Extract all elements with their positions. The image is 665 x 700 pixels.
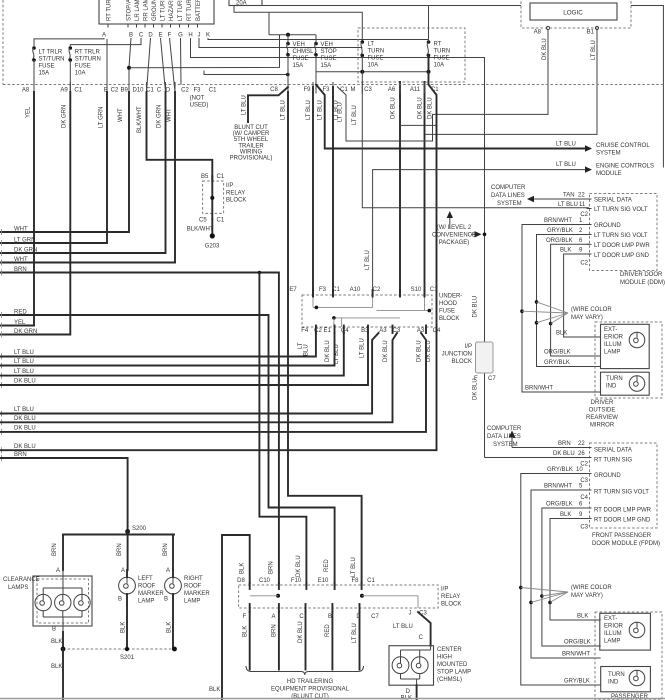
svg-text:A6: A6 bbox=[388, 87, 396, 93]
svg-text:MODULE: MODULE bbox=[596, 171, 622, 177]
wire firewall crossing tick bbox=[174, 82, 176, 94]
wire LT BLU blunt cut bbox=[248, 87, 288, 122]
wire BLK clearance to S201 bbox=[62, 632, 64, 649]
svg-text:C1: C1 bbox=[430, 287, 438, 293]
svg-text:C2: C2 bbox=[181, 88, 189, 94]
svg-text:DRIVER: DRIVER bbox=[591, 400, 614, 406]
svg-text:YEL: YEL bbox=[14, 320, 26, 326]
svg-text:A: A bbox=[56, 568, 60, 574]
svg-text:LT TRLR: LT TRLR bbox=[39, 50, 63, 56]
svg-text:I/P: I/P bbox=[226, 183, 233, 189]
svg-text:BLK: BLK bbox=[240, 563, 246, 574]
wire DK BLU to fuse block A3 bbox=[0, 333, 368, 385]
svg-text:LT BLU: LT BLU bbox=[306, 100, 312, 120]
svg-text:REARVIEW: REARVIEW bbox=[586, 415, 618, 421]
svg-text:DATA LINES: DATA LINES bbox=[487, 434, 521, 440]
svg-text:LT GRN: LT GRN bbox=[99, 107, 105, 128]
ground G203 bbox=[210, 233, 215, 238]
wire DK BLU to fuse block C4 right bbox=[0, 333, 426, 432]
svg-text:EXT-: EXT- bbox=[604, 327, 617, 333]
wire RT fuse top to logic rail bbox=[428, 6, 430, 43]
svg-text:RT TURN: RT TURN bbox=[187, 0, 193, 21]
right roof marker lamp bbox=[165, 577, 182, 594]
svg-text:G: G bbox=[178, 33, 183, 39]
wire BRN blunt bbox=[278, 612, 280, 670]
svg-text:C3: C3 bbox=[580, 525, 588, 531]
svg-text:10A: 10A bbox=[75, 71, 86, 77]
svg-text:ST/TURN: ST/TURN bbox=[39, 57, 65, 63]
svg-text:WIRING: WIRING bbox=[240, 149, 263, 155]
svg-text:PACKAGE): PACKAGE) bbox=[439, 240, 470, 246]
svg-text:SERIAL DATA: SERIAL DATA bbox=[594, 448, 632, 454]
node VEH CHMSL top bbox=[286, 33, 290, 37]
wire LT BLU from LOGIC B1 bbox=[425, 30, 598, 135]
svg-text:FUSE: FUSE bbox=[434, 56, 450, 62]
svg-text:A9: A9 bbox=[60, 88, 68, 94]
svg-text:BRN/WHT: BRN/WHT bbox=[562, 652, 590, 658]
wire BLK/WHT to ground bbox=[211, 219, 213, 236]
svg-text:UNDER-: UNDER- bbox=[439, 294, 462, 300]
svg-text:E1: E1 bbox=[324, 328, 332, 334]
wire LT BLU to fuse block C4 bbox=[0, 333, 344, 376]
svg-text:STOP LAMP: STOP LAMP bbox=[437, 670, 471, 676]
svg-text:F3: F3 bbox=[319, 287, 327, 293]
svg-text:LEFT: LEFT bbox=[138, 576, 153, 582]
wire BLK blunt bbox=[249, 612, 251, 670]
svg-text:15A: 15A bbox=[39, 71, 50, 77]
wire pin G down bbox=[180, 38, 183, 85]
svg-text:F3: F3 bbox=[193, 88, 201, 94]
lamp passenger exterior illum bbox=[629, 622, 645, 638]
svg-text:C8: C8 bbox=[270, 87, 278, 93]
svg-text:J: J bbox=[409, 611, 412, 617]
wire RED blunt bbox=[331, 612, 333, 670]
svg-text:B: B bbox=[164, 597, 168, 603]
wire WHT 2 bbox=[0, 92, 175, 263]
page edge tick bbox=[1, 260, 3, 266]
svg-text:CENTER: CENTER bbox=[437, 647, 462, 653]
svg-text:LT TURN: LT TURN bbox=[161, 0, 167, 21]
wire fuse load rail bbox=[316, 71, 429, 73]
svg-text:DK GRN: DK GRN bbox=[14, 329, 37, 335]
svg-text:BRN: BRN bbox=[52, 543, 58, 556]
FPDM pin tick bbox=[587, 518, 592, 520]
FPDM pin tick bbox=[587, 457, 592, 459]
node B junction bbox=[127, 66, 131, 70]
svg-text:B: B bbox=[52, 627, 56, 633]
wire stub rail F3 bbox=[204, 71, 288, 75]
svg-text:(W/ CAMPER: (W/ CAMPER bbox=[233, 131, 270, 137]
svg-text:D: D bbox=[148, 33, 153, 39]
svg-text:BRN: BRN bbox=[558, 441, 571, 447]
svg-text:GRY/BLK: GRY/BLK bbox=[564, 679, 590, 685]
svg-text:COMPUTER: COMPUTER bbox=[491, 185, 526, 191]
svg-text:ORG/BLK: ORG/BLK bbox=[544, 350, 571, 356]
wire rail to VEH fuses tops bbox=[269, 34, 316, 36]
wire BLK bridge bbox=[222, 535, 250, 700]
fuse RT TRLR ST/TURN 10A bbox=[69, 46, 73, 50]
svg-text:GROUND: GROUND bbox=[594, 223, 621, 229]
svg-text:A3: A3 bbox=[379, 328, 387, 334]
svg-text:BRN: BRN bbox=[269, 561, 275, 574]
svg-text:BLOCK: BLOCK bbox=[441, 602, 461, 608]
svg-text:MOUNTED: MOUNTED bbox=[437, 662, 468, 668]
svg-text:ORG/BLK: ORG/BLK bbox=[546, 502, 573, 508]
svg-text:BLK: BLK bbox=[560, 512, 571, 518]
wire firewall crossing tick bbox=[332, 82, 334, 94]
svg-text:LT BLU: LT BLU bbox=[591, 40, 597, 60]
svg-text:TRAILER: TRAILER bbox=[238, 143, 264, 149]
svg-text:ROOF: ROOF bbox=[138, 584, 156, 590]
svg-text:C10: C10 bbox=[259, 578, 271, 584]
svg-text:ERIOR: ERIOR bbox=[604, 624, 624, 630]
wire BLK left marker bbox=[126, 594, 128, 649]
page edge tick bbox=[1, 419, 3, 425]
svg-text:LT BLU: LT BLU bbox=[351, 557, 357, 577]
firewall dashed boundary bbox=[3, 84, 665, 86]
wire S200 bus bbox=[63, 534, 174, 536]
wire BRNWHT pin1 bbox=[522, 225, 601, 393]
relay pin ticks bottom bbox=[249, 604, 251, 612]
pin A8 bbox=[546, 26, 549, 29]
svg-text:SYSTEM: SYSTEM bbox=[497, 201, 522, 207]
svg-text:H: H bbox=[188, 33, 192, 39]
svg-text:LAMP: LAMP bbox=[184, 599, 200, 605]
svg-text:A8: A8 bbox=[534, 30, 542, 36]
wire LT BLU blunt bbox=[359, 612, 361, 670]
svg-text:B: B bbox=[129, 33, 133, 39]
svg-text:E10: E10 bbox=[318, 578, 329, 584]
svg-text:RT: RT bbox=[434, 42, 442, 48]
svg-text:F: F bbox=[168, 33, 172, 39]
wire firewall crossing tick bbox=[399, 82, 401, 94]
wire firewall crossing tick bbox=[146, 82, 148, 94]
svg-text:LT TURN SIG VOLT: LT TURN SIG VOLT bbox=[594, 233, 648, 239]
svg-text:ORG/BLK: ORG/BLK bbox=[546, 238, 573, 244]
svg-text:BLK: BLK bbox=[121, 622, 127, 633]
wire BRN drop right bbox=[172, 535, 174, 571]
svg-text:RT TURN SIG: RT TURN SIG bbox=[594, 458, 632, 464]
svg-text:HIGH: HIGH bbox=[437, 655, 452, 661]
page edge tick bbox=[1, 455, 3, 461]
svg-text:DK GRN: DK GRN bbox=[14, 247, 37, 253]
svg-text:RT TRLR: RT TRLR bbox=[75, 50, 101, 56]
wire BLK below CHMSL bbox=[416, 685, 418, 700]
svg-text:F: F bbox=[243, 614, 247, 620]
svg-text:LT TURN: LT TURN bbox=[178, 0, 184, 21]
svg-text:DK BLU: DK BLU bbox=[14, 444, 36, 450]
wire M to DDM 11 bbox=[362, 55, 589, 207]
svg-text:LT BLU: LT BLU bbox=[14, 407, 34, 413]
svg-text:F3: F3 bbox=[322, 87, 330, 93]
svg-text:RELAY: RELAY bbox=[226, 191, 245, 197]
svg-text:STOP/A): STOP/A) bbox=[127, 0, 133, 21]
fuse RT TURN 10A bbox=[427, 40, 431, 44]
FPDM dashed box bbox=[590, 443, 658, 528]
wire VEH STOP bottom bbox=[315, 55, 317, 85]
wire rail from B up to CHMSL top rail bbox=[129, 35, 280, 68]
fuse VEH STOP 15A bbox=[314, 42, 318, 46]
svg-text:A8: A8 bbox=[22, 88, 30, 94]
svg-text:LT BLU: LT BLU bbox=[334, 344, 340, 364]
logic module U1 dashed enclosure bbox=[521, 0, 631, 28]
svg-text:DK BLU: DK BLU bbox=[417, 340, 423, 362]
svg-text:FUSE: FUSE bbox=[368, 56, 384, 62]
dashed page edge top left bbox=[2, 0, 4, 85]
svg-text:BLK/WHT: BLK/WHT bbox=[187, 227, 214, 233]
svg-text:DK BLU: DK BLU bbox=[473, 296, 479, 318]
wire LT BLU from VEH CHMSL to relay F8 bbox=[288, 92, 362, 583]
wire RED bbox=[0, 315, 335, 583]
svg-text:22: 22 bbox=[578, 441, 585, 447]
wire rail to LOGIC bbox=[262, 5, 521, 7]
svg-text:TURN: TURN bbox=[606, 376, 623, 382]
wire ORGBLK pin6 bbox=[551, 244, 601, 356]
wire DK BLU to fuse block A3 right bbox=[0, 333, 397, 422]
svg-text:5TH WHEEL: 5TH WHEEL bbox=[234, 137, 269, 143]
svg-text:C2: C2 bbox=[111, 88, 119, 94]
svg-text:LT GRN: LT GRN bbox=[14, 237, 35, 243]
svg-text:20A: 20A bbox=[236, 1, 247, 7]
wire LT BLU to fuse block E1 bbox=[0, 333, 335, 366]
page edge tick bbox=[1, 270, 3, 276]
svg-text:C4: C4 bbox=[341, 328, 349, 334]
wire RT TRLR fuse bottom lead bbox=[69, 60, 71, 92]
svg-text:DRIVER DOOR: DRIVER DOOR bbox=[620, 272, 663, 278]
svg-text:MAY VARY): MAY VARY) bbox=[571, 593, 603, 599]
svg-text:MAY VARY): MAY VARY) bbox=[571, 315, 603, 321]
svg-text:GROUND: GROUND bbox=[594, 473, 621, 479]
svg-text:C1: C1 bbox=[340, 87, 348, 93]
wire through relay bbox=[211, 176, 213, 219]
svg-text:26: 26 bbox=[578, 451, 585, 457]
page edge tick bbox=[1, 447, 3, 453]
svg-text:C1: C1 bbox=[74, 88, 82, 94]
page edge tick bbox=[1, 382, 3, 388]
svg-text:BLOCK: BLOCK bbox=[452, 359, 472, 365]
lamp CHMSL 2 bbox=[411, 657, 428, 674]
node wire color dot bbox=[520, 309, 524, 313]
wire DK BLU blunt bbox=[305, 612, 307, 670]
I/P junction block bbox=[476, 342, 494, 373]
svg-text:EXT-: EXT- bbox=[604, 616, 617, 622]
passenger turn ind box bbox=[601, 667, 651, 692]
wire firewall crossing tick bbox=[165, 82, 167, 94]
page edge tick bbox=[1, 363, 3, 369]
svg-text:LT BLU: LT BLU bbox=[338, 102, 344, 122]
wire rail branch bbox=[268, 12, 270, 35]
node wire color dot bbox=[549, 322, 553, 326]
svg-text:F9: F9 bbox=[303, 87, 311, 93]
relay internals bbox=[276, 594, 280, 598]
svg-text:TURN: TURN bbox=[368, 49, 385, 55]
svg-text:MIRROR: MIRROR bbox=[590, 423, 615, 429]
wire TAN serial data arrow bbox=[534, 198, 589, 200]
svg-text:LT BLU: LT BLU bbox=[14, 350, 34, 356]
svg-text:A3: A3 bbox=[417, 328, 425, 334]
svg-text:TURN: TURN bbox=[608, 672, 625, 678]
page edge tick bbox=[1, 240, 3, 246]
wire BLK pin9 bbox=[564, 254, 601, 337]
lamp CHMSL 1 bbox=[392, 657, 409, 674]
lamp driver turn ind bbox=[629, 376, 645, 392]
svg-text:M: M bbox=[351, 87, 356, 93]
wire pin B down with junction bbox=[129, 38, 131, 67]
svg-text:C7: C7 bbox=[371, 614, 379, 620]
node BRN branch bbox=[258, 271, 262, 275]
DDM pin tick bbox=[587, 198, 592, 200]
svg-text:DK GRN: DK GRN bbox=[157, 105, 163, 128]
svg-text:MODULE (DDM): MODULE (DDM) bbox=[620, 280, 665, 286]
svg-text:DK BLU: DK BLU bbox=[325, 340, 331, 362]
svg-text:HOOD: HOOD bbox=[439, 301, 458, 307]
svg-text:RT TURN SIG VOLT: RT TURN SIG VOLT bbox=[594, 490, 649, 496]
wire BRN drop left bbox=[62, 535, 64, 571]
svg-text:RED: RED bbox=[325, 624, 331, 637]
svg-text:22: 22 bbox=[578, 193, 585, 199]
wire pin D down bbox=[147, 38, 151, 92]
svg-text:LT BLU: LT BLU bbox=[365, 250, 371, 270]
svg-text:D10: D10 bbox=[132, 88, 144, 94]
svg-text:DATA LINES: DATA LINES bbox=[491, 193, 525, 199]
arrow to wire bbox=[471, 233, 477, 235]
svg-text:BLK: BLK bbox=[577, 614, 588, 620]
wire LT BLU to fuse block F4 bbox=[0, 333, 316, 357]
wire BRN drop mid bbox=[127, 535, 129, 571]
svg-text:DK BLU: DK BLU bbox=[426, 340, 432, 362]
svg-text:LT BLU: LT BLU bbox=[242, 95, 248, 115]
svg-text:C: C bbox=[419, 635, 424, 641]
svg-text:BLOCK: BLOCK bbox=[439, 316, 459, 322]
svg-text:EQUIPMENT PROVISIONAL: EQUIPMENT PROVISIONAL bbox=[271, 687, 350, 693]
wire firewall crossing tick bbox=[287, 82, 289, 94]
svg-text:ILLUM: ILLUM bbox=[604, 342, 622, 348]
svg-text:10A: 10A bbox=[368, 63, 379, 69]
svg-text:BRN/WHT: BRN/WHT bbox=[525, 386, 553, 392]
passenger exterior illum lamp box bbox=[600, 613, 651, 650]
page edge tick bbox=[1, 229, 3, 235]
svg-text:I/P: I/P bbox=[441, 587, 448, 593]
svg-text:C3: C3 bbox=[393, 328, 401, 334]
svg-text:COMPUTER: COMPUTER bbox=[487, 426, 522, 432]
svg-text:F4: F4 bbox=[301, 328, 309, 334]
svg-text:ENGINE CONTROLS: ENGINE CONTROLS bbox=[596, 164, 654, 170]
clearance lamps box bbox=[33, 576, 92, 626]
wire GRYBLK 10 bbox=[521, 474, 601, 686]
svg-text:LT BLU: LT BLU bbox=[14, 359, 34, 365]
svg-text:RED: RED bbox=[14, 309, 27, 315]
splice S200 bbox=[125, 529, 130, 534]
svg-text:LAMPS: LAMPS bbox=[8, 585, 28, 591]
svg-text:TURN: TURN bbox=[434, 49, 451, 55]
exterior illum lamp box bbox=[601, 324, 650, 368]
trailer connector box (cut off at top) bbox=[99, 0, 214, 24]
svg-text:C: C bbox=[299, 614, 304, 620]
svg-text:BLK/WHT: BLK/WHT bbox=[137, 106, 143, 133]
wire VEH STOP to cruise bbox=[316, 85, 589, 149]
page edge tick bbox=[1, 354, 3, 360]
svg-text:10A: 10A bbox=[434, 63, 445, 69]
DDM pin tick bbox=[587, 243, 592, 245]
svg-text:WHT: WHT bbox=[167, 108, 173, 122]
svg-text:DK BLU: DK BLU bbox=[383, 340, 389, 362]
wire firewall crossing tick bbox=[69, 82, 71, 94]
bracket HD trailering bbox=[246, 666, 364, 675]
lamp clearance 2 bbox=[55, 594, 71, 610]
svg-text:DK BLU: DK BLU bbox=[14, 379, 36, 385]
wire A6 feed bbox=[399, 82, 401, 296]
svg-text:BLK: BLK bbox=[560, 248, 571, 254]
svg-text:S10: S10 bbox=[411, 287, 422, 293]
svg-text:BRN: BRN bbox=[14, 267, 27, 273]
svg-text:VEH: VEH bbox=[321, 42, 333, 48]
svg-text:A: A bbox=[102, 33, 106, 39]
svg-text:GRY/BLK: GRY/BLK bbox=[544, 360, 570, 366]
wire E7 feed bbox=[312, 87, 314, 296]
svg-text:(WIRE COLOR: (WIRE COLOR bbox=[571, 307, 612, 313]
svg-text:BRN: BRN bbox=[117, 543, 123, 556]
wire DK BLU long to RT TURN fuse bbox=[0, 55, 437, 450]
svg-text:GRY/BLK: GRY/BLK bbox=[547, 228, 573, 234]
svg-text:C: C bbox=[157, 88, 162, 94]
FPDM pin tick bbox=[587, 489, 592, 491]
passenger mirror dashed box bbox=[595, 612, 662, 700]
svg-text:BLUNT CUT: BLUNT CUT bbox=[234, 125, 268, 131]
svg-text:C2: C2 bbox=[580, 261, 588, 267]
pin tick crossing fuse block bottom bbox=[315, 326, 317, 334]
wire ORGBLK 6 bbox=[542, 508, 601, 646]
svg-text:ST/TURN: ST/TURN bbox=[75, 57, 101, 63]
svg-text:(WIRE COLOR: (WIRE COLOR bbox=[571, 585, 612, 591]
wire LT GRN bbox=[0, 92, 107, 243]
FPDM pin tick bbox=[587, 507, 592, 509]
svg-text:DK BLU: DK BLU bbox=[14, 416, 36, 422]
wire A10 feed with engine branch bbox=[373, 170, 589, 296]
wire pin J rail bbox=[199, 38, 362, 48]
svg-text:LT BLU: LT BLU bbox=[281, 100, 287, 120]
svg-text:LT DOOR LMP GND: LT DOOR LMP GND bbox=[594, 253, 650, 259]
svg-text:K: K bbox=[206, 33, 210, 39]
lamp driver exterior illum bbox=[629, 332, 645, 348]
wire DK BLU H-rail lower part bbox=[485, 457, 590, 459]
svg-text:ROOF: ROOF bbox=[184, 584, 202, 590]
svg-text:S201: S201 bbox=[120, 655, 135, 661]
svg-text:FRONT PASSENGER: FRONT PASSENGER bbox=[592, 533, 652, 539]
wire firewall crossing tick bbox=[312, 82, 314, 94]
DDM pin tick bbox=[587, 253, 592, 255]
fuse VEH CHMSL 15A bbox=[286, 42, 290, 46]
svg-text:C5: C5 bbox=[199, 218, 207, 224]
svg-text:G203: G203 bbox=[205, 244, 220, 250]
svg-text:IND: IND bbox=[608, 680, 619, 686]
svg-text:HAZARD: HAZARD bbox=[169, 0, 175, 21]
svg-text:A: A bbox=[121, 568, 125, 574]
wire LT GRN top bbox=[106, 39, 108, 92]
page edge tick bbox=[1, 411, 3, 417]
svg-text:B1: B1 bbox=[587, 30, 595, 36]
svg-text:LT DOOR LMP PWR: LT DOOR LMP PWR bbox=[594, 243, 650, 249]
wire DK GRN bbox=[0, 92, 70, 335]
svg-text:WHT: WHT bbox=[14, 226, 28, 232]
FPDM pin tick bbox=[587, 473, 592, 475]
svg-text:F: F bbox=[474, 376, 478, 382]
svg-text:C2: C2 bbox=[373, 287, 381, 293]
svg-text:DK BLU: DK BLU bbox=[553, 451, 575, 457]
svg-text:RT DOOR LMP GND: RT DOOR LMP GND bbox=[594, 518, 651, 524]
wire DK BLU from LOGIC A8 bbox=[337, 30, 548, 142]
fuse 20A (cut off at top) bbox=[229, 0, 262, 6]
node wire color dot bbox=[540, 594, 544, 598]
